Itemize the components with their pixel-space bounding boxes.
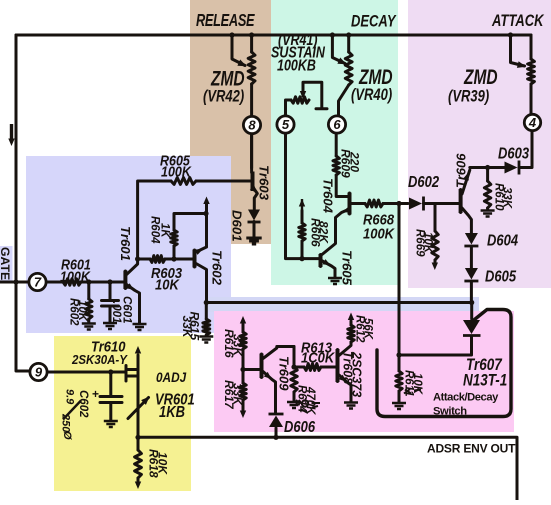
svg-text:33K: 33K <box>180 316 194 339</box>
svg-text:33K: 33K <box>231 383 245 406</box>
svg-text:Tr602: Tr602 <box>210 250 225 286</box>
svg-text:GATE: GATE <box>0 247 12 280</box>
svg-text:Tr609: Tr609 <box>277 356 292 391</box>
svg-text:8: 8 <box>248 118 256 133</box>
svg-text:7: 7 <box>34 275 42 290</box>
svg-text:(VR42): (VR42) <box>203 88 244 106</box>
svg-text:2SC373: 2SC373 <box>350 351 364 397</box>
svg-text:Attack/Decay: Attack/Decay <box>433 392 499 404</box>
svg-text:ADSR ENV OUT: ADSR ENV OUT <box>427 442 516 456</box>
svg-text:5: 5 <box>282 117 290 132</box>
svg-text:1KB: 1KB <box>159 404 185 421</box>
svg-text:DECAY: DECAY <box>351 12 397 31</box>
svg-text:10K: 10K <box>76 300 88 322</box>
svg-text:0ADJ: 0ADJ <box>156 369 187 385</box>
svg-text:82K: 82K <box>317 221 331 244</box>
svg-text:6: 6 <box>333 117 341 132</box>
svg-text:4: 4 <box>528 115 537 130</box>
svg-text:100KB: 100KB <box>277 56 316 74</box>
svg-text:Tr606: Tr606 <box>454 153 469 188</box>
svg-text:D601: D601 <box>230 210 245 242</box>
svg-text:D604: D604 <box>487 232 518 249</box>
svg-text:Tr601: Tr601 <box>118 226 133 261</box>
svg-text:10K: 10K <box>411 373 423 395</box>
svg-text:1C0K: 1C0K <box>301 349 335 366</box>
svg-text:D606: D606 <box>284 419 316 436</box>
svg-text:(VR40): (VR40) <box>351 87 392 105</box>
svg-text:ZMD: ZMD <box>358 64 393 88</box>
svg-text:470K: 470K <box>304 386 316 415</box>
svg-text:Switch: Switch <box>433 406 467 418</box>
svg-text:9: 9 <box>35 365 43 380</box>
svg-text:33K: 33K <box>501 187 513 209</box>
svg-text:10K: 10K <box>422 232 434 254</box>
svg-text:.001: .001 <box>110 301 122 323</box>
svg-text:220: 220 <box>348 151 362 172</box>
svg-text:100K: 100K <box>161 164 192 180</box>
svg-text:10K: 10K <box>155 276 180 293</box>
svg-text:ATTACK: ATTACK <box>491 11 544 30</box>
svg-text:Tr604: Tr604 <box>321 178 336 214</box>
svg-text:+: + <box>92 387 99 401</box>
svg-text:RELEASE: RELEASE <box>196 11 255 30</box>
svg-text:10K: 10K <box>156 452 170 475</box>
svg-text:100K: 100K <box>60 269 91 285</box>
svg-text:Tr605: Tr605 <box>340 250 355 286</box>
svg-text:D605: D605 <box>485 268 517 285</box>
svg-text:(VR39): (VR39) <box>448 88 489 106</box>
svg-text:56K: 56K <box>362 318 374 340</box>
svg-text:N13T-1: N13T-1 <box>463 372 507 389</box>
svg-text:1K: 1K <box>159 223 171 238</box>
svg-text:ZMD: ZMD <box>210 66 245 90</box>
svg-text:9.9: 9.9 <box>64 389 76 405</box>
svg-text:Ø: Ø <box>61 431 73 440</box>
svg-text:ZMD: ZMD <box>463 64 498 88</box>
svg-text:Tr603: Tr603 <box>257 165 272 201</box>
svg-text:100K: 100K <box>363 225 395 242</box>
svg-text:D602: D602 <box>408 174 439 191</box>
svg-text:33K: 33K <box>231 334 245 357</box>
svg-text:2SK30A-Y: 2SK30A-Y <box>71 352 128 367</box>
svg-text:D603: D603 <box>498 145 529 162</box>
